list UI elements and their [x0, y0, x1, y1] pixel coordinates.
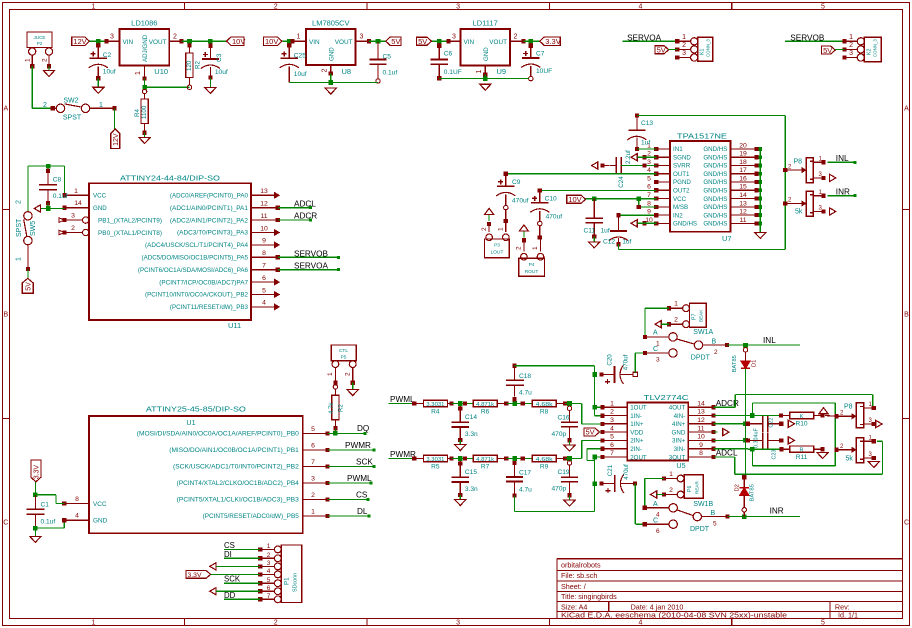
svg-text:(PCINT7/ICP/OC0B/ADC7)PA7: (PCINT7/ICP/OC0B/ADC7)PA7 — [159, 279, 248, 286]
svg-text:3: 3 — [456, 620, 460, 627]
ground — [480, 84, 491, 90]
label PWML — [347, 474, 372, 483]
svg-text:R5: R5 — [431, 464, 440, 471]
svg-text:CTL: CTL — [339, 348, 348, 354]
svg-text:LD1117: LD1117 — [473, 19, 498, 28]
svg-text:R4: R4 — [431, 409, 440, 416]
capacitor C25 10uf — [280, 43, 307, 83]
power label 10V — [264, 37, 282, 46]
svg-text:5V: 5V — [586, 428, 595, 437]
svg-text:VIN: VIN — [464, 39, 475, 46]
svg-text:DPDT: DPDT — [690, 526, 710, 533]
wire INR top — [828, 194, 857, 197]
svg-text:5: 5 — [311, 426, 315, 433]
svg-text:C23: C23 — [771, 450, 777, 460]
wire R9 to 2IN+ — [582, 438, 605, 458]
svg-text:GND: GND — [93, 518, 108, 525]
svg-text:13: 13 — [739, 200, 747, 207]
potentiometer P8 unit B — [783, 190, 826, 216]
wire ADCR — [278, 219, 312, 222]
svg-text:8: 8 — [647, 200, 651, 207]
wire SW2 to 12V label — [114, 108, 116, 129]
svg-text:4.871k: 4.871k — [476, 457, 494, 463]
resistor R10 — [752, 412, 824, 427]
svg-text:11: 11 — [697, 425, 704, 432]
IC U11 ATTINY24-44-84/DIP-SO — [59, 174, 280, 331]
svg-text:VCC: VCC — [93, 193, 107, 200]
svg-text:U11: U11 — [228, 321, 241, 330]
power label 5V — [417, 37, 432, 46]
ground — [139, 138, 150, 144]
wire 5V to K1 pin2 — [669, 48, 678, 50]
power label 5V (vertical) — [22, 278, 33, 293]
regulator U9 LD1117 — [449, 19, 526, 77]
svg-text:(ADC5/DO/MISO/OC1B/PCINT5)_PA5: (ADC5/DO/MISO/OC1B/PCINT5)_PA5 — [142, 255, 249, 262]
svg-text:2: 2 — [71, 225, 75, 232]
svg-text:0.1uf: 0.1uf — [41, 519, 56, 526]
svg-text:10: 10 — [697, 434, 705, 441]
capacitor C18 4.7u — [506, 364, 532, 402]
svg-text:4.7u: 4.7u — [519, 487, 532, 494]
capacitor C8 0.1uf — [39, 168, 68, 205]
svg-text:R11: R11 — [796, 454, 808, 461]
svg-text:3: 3 — [267, 560, 271, 567]
svg-text:3: 3 — [360, 34, 364, 41]
capacitor C3 10uf — [201, 43, 228, 80]
svg-text:5V: 5V — [418, 37, 427, 46]
power label 10V — [227, 37, 246, 46]
svg-text:C10: C10 — [545, 196, 557, 203]
capacitor C1 0.1uf — [27, 495, 56, 528]
svg-text:DQ: DQ — [357, 424, 369, 433]
svg-text:4: 4 — [75, 513, 79, 520]
svg-text:10V: 10V — [265, 37, 278, 46]
svg-text:GND: GND — [672, 429, 686, 436]
svg-text:SPST: SPST — [16, 218, 23, 237]
svg-text:4: 4 — [262, 300, 266, 307]
connector P6 REAR — [662, 471, 703, 498]
wire R10 to P8C wiper — [825, 415, 837, 418]
ground arrow left — [34, 205, 40, 212]
svg-text:4: 4 — [267, 568, 271, 575]
svg-text:INR: INR — [770, 507, 784, 516]
svg-text:5V: 5V — [823, 46, 832, 55]
svg-text:(PCINT4/XTAL2/CLKO/OC1B/ADC2)_: (PCINT4/XTAL2/CLKO/OC1B/ADC2)_PB4 — [177, 480, 300, 487]
svg-text:1: 1 — [682, 34, 686, 41]
svg-text:3IN-: 3IN- — [674, 446, 686, 453]
svg-text:(PCINT5/XTAL1/CLKI/OC1B/ADC3)_: (PCINT5/XTAL1/CLKI/OC1B/ADC3)_PB3 — [177, 497, 300, 504]
wire SW5 to 5V — [27, 269, 29, 279]
arrow right C23 — [788, 437, 794, 444]
svg-text:(MOSI/DI/SDA/AIN0/OC0A/OC1A/AR: (MOSI/DI/SDA/AIN0/OC0A/OC1A/AREF/PCINT0)… — [137, 431, 299, 438]
svg-text:1: 1 — [297, 34, 301, 41]
ground — [347, 390, 358, 396]
svg-text:3: 3 — [610, 417, 614, 424]
svg-text:15: 15 — [739, 184, 747, 191]
label SCK — [224, 575, 241, 584]
svg-text:5k: 5k — [846, 456, 854, 463]
wire C12 to right bus — [618, 204, 785, 250]
wire 3IN- node — [714, 447, 784, 452]
svg-text:P7: P7 — [692, 314, 698, 320]
svg-text:2IN+: 2IN+ — [630, 438, 644, 445]
svg-text:BAT85: BAT85 — [749, 484, 755, 501]
svg-text:GND/HS: GND/HS — [703, 221, 727, 228]
svg-text:470p: 470p — [552, 431, 567, 438]
svg-text:3IN+: 3IN+ — [672, 438, 686, 445]
svg-text:14: 14 — [74, 200, 82, 207]
svg-text:10: 10 — [260, 225, 268, 232]
wire C2 to ground — [97, 78, 99, 87]
svg-text:5k: 5k — [795, 209, 803, 216]
svg-text:SW1B: SW1B — [693, 501, 713, 508]
capacitor C23 0.304uF — [748, 433, 784, 460]
svg-text:R9: R9 — [540, 464, 549, 471]
svg-text:12: 12 — [260, 201, 268, 208]
ground — [564, 445, 575, 451]
capacitor C6 0.1UF — [431, 43, 462, 80]
regulator U8 LM7805CV — [292, 19, 371, 77]
wire C17 to 2OUT node — [515, 484, 595, 512]
svg-text:5V: 5V — [657, 45, 666, 54]
wire C13 top to right bus — [637, 116, 785, 204]
svg-text:2: 2 — [16, 200, 23, 204]
arrow right P8B pin3 — [830, 208, 836, 215]
svg-text:BAT85: BAT85 — [732, 355, 738, 372]
svg-text:1: 1 — [92, 620, 96, 627]
svg-text:GND: GND — [329, 47, 336, 61]
svg-text:GND: GND — [483, 47, 490, 61]
label SERVOA — [627, 33, 662, 42]
svg-text:B: B — [3, 312, 8, 319]
svg-text:10V: 10V — [568, 195, 581, 204]
svg-text:8: 8 — [699, 450, 703, 457]
svg-text:DD: DD — [224, 591, 236, 600]
connector P3 LOUT — [481, 222, 510, 258]
svg-text:C1: C1 — [41, 502, 50, 509]
svg-text:1: 1 — [674, 301, 678, 308]
svg-text:3.3V: 3.3V — [188, 572, 202, 579]
svg-text:2: 2 — [674, 317, 678, 324]
svg-text:10uf: 10uf — [215, 69, 228, 76]
wire VCC loop to C8 — [28, 164, 67, 198]
svg-text:4.68k: 4.68k — [536, 457, 553, 463]
svg-text:Id. 1/1: Id. 1/1 — [838, 611, 858, 620]
svg-text:C16: C16 — [558, 414, 570, 421]
svg-text:PGND: PGND — [673, 179, 691, 186]
svg-text:4IN-: 4IN- — [674, 413, 686, 420]
capacitor C21 470uf — [599, 464, 637, 493]
svg-text:P1: P1 — [284, 577, 291, 585]
capacitor C10 470uf — [530, 190, 562, 237]
svg-text:U9: U9 — [497, 67, 507, 76]
wire C3 to ground — [209, 78, 211, 88]
svg-text:4: 4 — [639, 620, 643, 627]
wire CS to P1 — [224, 548, 260, 550]
svg-text:1: 1 — [135, 71, 142, 75]
label SERVOB — [294, 249, 329, 258]
svg-text:470p: 470p — [552, 486, 567, 493]
svg-text:OUT2: OUT2 — [673, 188, 690, 195]
svg-text:TPA1517NE: TPA1517NE — [677, 131, 727, 140]
svg-text:SW1A: SW1A — [693, 329, 713, 336]
wire P2 pin1 to SW2 — [32, 66, 55, 110]
label CS — [356, 490, 368, 499]
svg-text:3.3n: 3.3n — [465, 486, 478, 493]
svg-text:(ADC0/AREF(PCINT0)_PA0: (ADC0/AREF(PCINT0)_PA0 — [170, 193, 249, 200]
wire ADCL to P8D pin1 — [714, 441, 883, 474]
svg-text:R2: R2 — [339, 404, 345, 412]
label INL — [763, 336, 776, 345]
svg-text:2: 2 — [610, 409, 614, 416]
svg-text:1: 1 — [532, 246, 539, 250]
svg-text:2: 2 — [669, 487, 673, 494]
svg-text:8: 8 — [262, 250, 266, 257]
svg-text:C: C — [904, 520, 909, 527]
wire 3IN+ stub — [714, 438, 750, 442]
svg-text:9: 9 — [647, 209, 651, 216]
capacitor C12 1uf — [603, 215, 632, 246]
capacitor C9 470uf — [496, 174, 528, 219]
ground arrow U7 SGND — [631, 154, 656, 161]
resistor R2 120 — [186, 43, 202, 90]
svg-text:C: C — [3, 520, 8, 527]
svg-text:SVRR: SVRR — [673, 163, 691, 170]
svg-text:12V: 12V — [73, 37, 86, 46]
resistor R9 4.68k — [532, 455, 567, 470]
svg-text:CS: CS — [224, 541, 235, 550]
potentiometer P8 unit D — [834, 436, 875, 463]
wire ADCL — [278, 206, 312, 209]
wire 5V to K2 pin2 — [835, 48, 844, 50]
label DL — [357, 507, 368, 516]
svg-text:INR: INR — [836, 187, 850, 196]
IC U1 ATTINY25-45-85/DIP-SO — [62, 405, 329, 534]
svg-text:ROUT: ROUT — [525, 269, 539, 275]
svg-text:2: 2 — [344, 372, 351, 376]
wire CS — [327, 498, 369, 501]
ground — [205, 88, 216, 94]
svg-text:CONN_3: CONN_3 — [873, 39, 878, 57]
svg-text:P6: P6 — [687, 486, 693, 492]
wire ADCR to P8C pin1 — [714, 395, 873, 408]
svg-text:P2: P2 — [37, 41, 43, 46]
power label 5V — [386, 37, 401, 46]
svg-text:(ADC2/AIN1/PCINT2)_PA2: (ADC2/AIN1/PCINT2)_PA2 — [170, 217, 249, 224]
svg-text:VCC: VCC — [93, 501, 107, 508]
svg-text:2: 2 — [514, 34, 518, 41]
svg-text:ADCL: ADCL — [294, 199, 316, 208]
wire D1 to 4IN+/3IN+ bus — [743, 368, 748, 477]
svg-text:GND/HS: GND/HS — [703, 163, 727, 170]
svg-text:DL: DL — [357, 507, 368, 516]
power label 5V — [655, 45, 669, 54]
wire C15 to ground — [459, 495, 461, 499]
wire PWMR to R5 — [388, 456, 416, 460]
label SCK — [356, 457, 373, 466]
wire 10V to U8 VIN — [283, 39, 295, 44]
wire DQ — [327, 431, 366, 436]
ground — [755, 232, 766, 238]
svg-text:VDD: VDD — [630, 429, 644, 436]
svg-text:4.7u: 4.7u — [519, 390, 532, 397]
wire R6-R8 node — [506, 401, 532, 406]
svg-text:C8: C8 — [53, 177, 62, 184]
svg-text:U5: U5 — [676, 461, 685, 470]
wire U9 ground rail — [439, 75, 529, 81]
svg-text:13: 13 — [697, 409, 705, 416]
capacitor C20 470uf — [599, 354, 637, 384]
svg-text:(PCINT11/RESET/dW)_PB3: (PCINT11/RESET/dW)_PB3 — [170, 304, 249, 311]
ground arrow left P1 pin6 — [210, 588, 216, 595]
svg-text:19: 19 — [739, 151, 747, 158]
svg-text:(PCINT6/OC1A/SDA/MOSI/ADC6)_PA: (PCINT6/OC1A/SDA/MOSI/ADC6)_PA6 — [138, 267, 249, 274]
wire 1OUT stub — [595, 405, 605, 409]
wire 3.3V to P1 pin4 — [211, 573, 261, 575]
connector P5 CTL — [327, 345, 356, 385]
capacitor C22 0.304uF — [748, 416, 784, 448]
ground arrow U7 GND/HS — [631, 220, 656, 227]
resistor R7 4.87k — [473, 455, 508, 470]
wire DD to P1 — [224, 598, 260, 600]
capacitor C7 10UF — [521, 43, 552, 81]
svg-text:17: 17 — [739, 167, 747, 174]
wire 5V to U9 VIN — [432, 39, 451, 44]
svg-text:PWML: PWML — [347, 474, 372, 483]
svg-text:VOUT: VOUT — [335, 39, 353, 46]
svg-text:R: R — [800, 448, 804, 454]
wire P7 pin1 to SW1A A — [643, 308, 669, 339]
arrow right P8C pin3 — [876, 420, 882, 427]
svg-text:P4: P4 — [529, 262, 535, 268]
svg-text:R2: R2 — [195, 61, 202, 69]
svg-text:GND/HS: GND/HS — [673, 221, 697, 228]
svg-text:11: 11 — [260, 213, 267, 220]
label ADCL — [294, 199, 316, 208]
svg-text:C: C — [653, 517, 658, 524]
svg-text:ADCL: ADCL — [716, 449, 738, 458]
svg-text:PWMR: PWMR — [345, 441, 371, 450]
svg-text:2: 2 — [682, 42, 686, 49]
svg-text:2: 2 — [516, 246, 523, 250]
svg-text:3: 3 — [452, 34, 456, 41]
wire C1 to GND pin — [33, 518, 66, 530]
svg-text:C7: C7 — [536, 51, 545, 58]
wire SERVOA to K1 — [623, 39, 680, 43]
svg-text:C22: C22 — [769, 418, 775, 428]
svg-text:P8: P8 — [844, 404, 853, 411]
svg-text:IN2: IN2 — [673, 212, 683, 219]
svg-text:7: 7 — [262, 263, 266, 270]
wire OUT2 to C10 — [538, 188, 657, 192]
svg-text:2: 2 — [481, 227, 488, 231]
wire C16 to ground — [569, 440, 571, 445]
svg-text:C3: C3 — [216, 53, 223, 62]
label DD — [224, 591, 236, 600]
wire GND rail to pin14 — [40, 203, 64, 211]
svg-text:1: 1 — [498, 227, 505, 231]
svg-text:4OUT: 4OUT — [669, 405, 686, 412]
wire 4IN- node — [714, 413, 781, 418]
ground — [589, 242, 600, 248]
svg-text:6: 6 — [311, 443, 315, 450]
svg-text:3: 3 — [647, 159, 651, 166]
svg-text:10uf: 10uf — [294, 71, 307, 78]
svg-text:2: 2 — [274, 3, 278, 10]
connector K2 CONN_3 — [843, 34, 882, 62]
svg-text:470uf: 470uf — [546, 213, 563, 220]
wire R4-R6 node — [451, 401, 473, 406]
switch SW1A DPDT — [645, 329, 729, 364]
diode D2 BAT85 — [734, 475, 755, 516]
svg-text:1: 1 — [669, 471, 673, 478]
svg-text:1: 1 — [849, 34, 853, 41]
svg-text:13: 13 — [260, 188, 268, 195]
resistor R11 — [782, 446, 825, 461]
svg-text:R10: R10 — [795, 420, 807, 427]
svg-text:U8: U8 — [342, 67, 352, 76]
wire 2OUT stub — [595, 455, 605, 459]
svg-text:1: 1 — [476, 70, 483, 74]
svg-text:14: 14 — [739, 192, 747, 199]
capacitor C16 470p — [552, 406, 579, 442]
svg-text:VOUT: VOUT — [489, 39, 507, 46]
wire 10V to U7 VCC — [586, 196, 657, 201]
arrow right P8A pin3 — [830, 174, 836, 181]
power label 5V — [584, 428, 600, 437]
label DI — [224, 550, 232, 559]
svg-text:1: 1 — [16, 257, 23, 261]
svg-text:(PCINT5/RESET/ADC0/dW)_PB5: (PCINT5/RESET/ADC0/dW)_PB5 — [203, 513, 300, 520]
svg-text:B: B — [712, 339, 717, 346]
wire 5V to VDD — [600, 430, 605, 434]
label PWMR — [390, 450, 416, 459]
wire OUT1 to C9 — [504, 172, 657, 176]
svg-text:1OUT: 1OUT — [630, 405, 647, 412]
svg-text:1: 1 — [610, 400, 614, 407]
ground — [43, 71, 54, 77]
label SERVOA — [294, 262, 329, 271]
svg-text:KiCad E.D.A. eeschema (2010-0: KiCad E.D.A. eeschema (2010-04-08 SVN 25… — [561, 611, 787, 620]
svg-text:1uf: 1uf — [622, 239, 631, 246]
svg-text:1: 1 — [74, 188, 78, 195]
wire P4 pin2 up — [523, 231, 525, 237]
power label 3.3V — [186, 571, 211, 579]
svg-text:1: 1 — [267, 543, 271, 550]
switch SW2 SPST — [43, 97, 117, 121]
wire R4 to ground — [144, 133, 146, 138]
svg-text:0.1uf: 0.1uf — [383, 70, 398, 77]
svg-text:2: 2 — [311, 492, 315, 499]
wire C21 to SW1B C — [635, 484, 647, 527]
svg-text:2: 2 — [322, 69, 329, 73]
power label 5V — [822, 46, 836, 55]
svg-text:(MISO/DO/AIN1/OC0B/OC1A/PCINT1: (MISO/DO/AIN1/OC0B/OC1A/PCINT1)_PB1 — [169, 447, 299, 454]
svg-text:20: 20 — [739, 142, 747, 149]
svg-text:2: 2 — [849, 42, 853, 49]
svg-text:C25: C25 — [294, 53, 306, 60]
svg-text:10uf: 10uf — [103, 69, 116, 76]
svg-text:C17: C17 — [519, 470, 531, 477]
svg-text:LM7805CV: LM7805CV — [312, 19, 350, 28]
svg-text:D1: D1 — [752, 360, 758, 367]
wire 3.3V to VCC — [33, 482, 64, 504]
wire C24 left — [601, 163, 610, 167]
svg-text:5V: 5V — [391, 37, 400, 46]
svg-text:(SCK/USCK/ADC1/T0/INT0/PCINT2): (SCK/USCK/ADC1/T0/INT0/PCINT2)_PB2 — [173, 464, 299, 471]
label ADCL — [716, 449, 738, 458]
wire C18 top to 1OUT node — [515, 366, 595, 375]
